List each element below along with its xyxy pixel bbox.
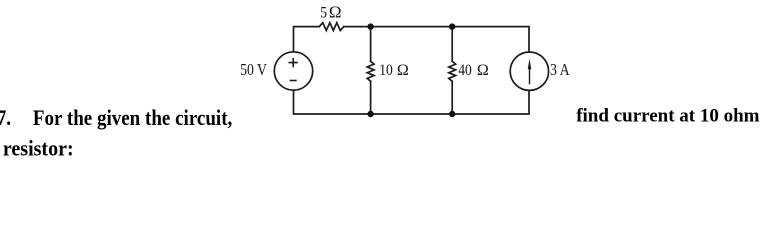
resistor R2 10-ohm zigzag [367,61,374,81]
svg-text:10: 10 [379,62,393,79]
wire 10-ohm branch lower [370,81,372,114]
voltage source V1 circle [274,52,312,90]
voltage source minus sign [290,80,297,82]
resistor R1 5-ohm zigzag [319,23,344,31]
voltage source plus sign [289,58,298,67]
svg-text:3 A: 3 A [550,61,570,80]
node dot top-left junction [367,23,373,29]
svg-text:Ω: Ω [329,3,342,22]
svg-text:Ω: Ω [477,62,489,79]
svg-text:5: 5 [320,5,327,22]
wire top-left segment [294,27,320,52]
svg-text:7.: 7. [0,107,11,131]
wire bottom rail [294,90,530,114]
wire top rail right of R1 [344,27,529,52]
svg-text:For the given the circuit,: For the given the circuit, [33,107,232,131]
wire 10-ohm branch upper [370,27,372,62]
wire 40-ohm branch upper [451,27,453,62]
svg-text:Ω: Ω [397,62,409,79]
current source I1 circle [510,52,548,90]
current source arrow shaft [529,67,531,85]
resistor R3 40-ohm zigzag [449,61,456,81]
node dot bottom-right junction [449,111,455,117]
node dot top-right junction [449,23,455,29]
svg-text:resistor:: resistor: [3,135,74,160]
wire 40-ohm branch lower [451,81,453,114]
svg-text:40: 40 [458,62,472,79]
svg-text:50 V: 50 V [240,61,267,80]
current source arrow head [528,59,532,69]
node dot bottom-left junction [367,111,373,117]
svg-text:find current at 10 ohm: find current at 10 ohm [576,106,759,127]
